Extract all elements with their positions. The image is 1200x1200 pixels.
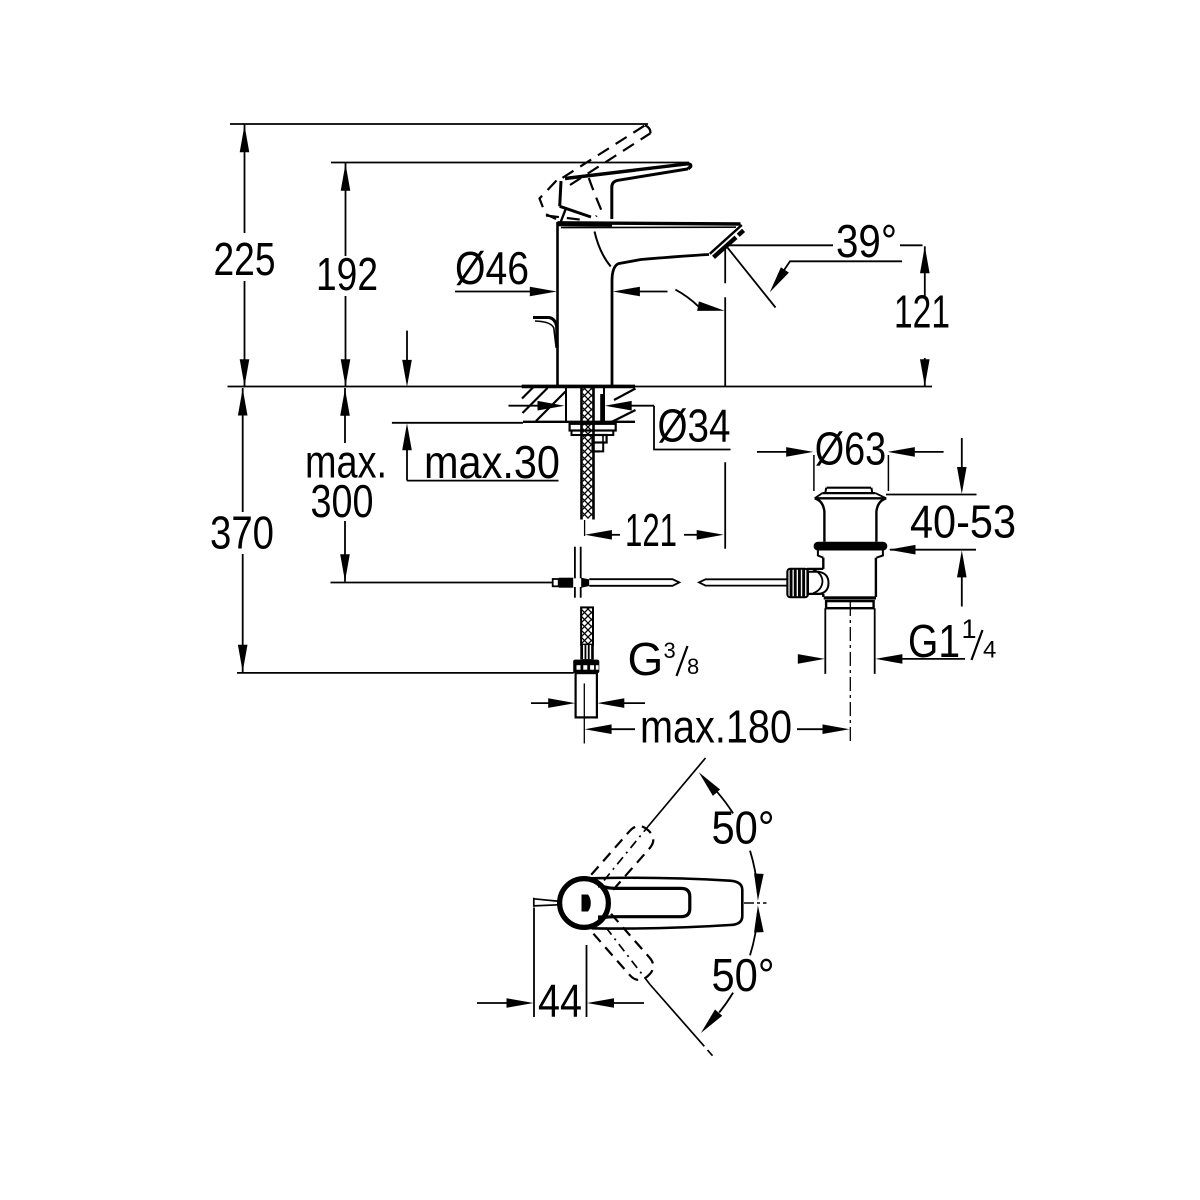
clamp block — [559, 578, 574, 588]
arc centerline — [744, 902, 767, 904]
curved arrow to spout angle — [675, 290, 698, 307]
hole edges — [565, 388, 567, 421]
svg-text:8: 8 — [687, 654, 699, 679]
inner grip outline — [602, 886, 690, 917]
hose centerline — [583, 683, 585, 743]
faucet centerline below shank — [584, 520, 586, 536]
flange bell — [815, 497, 887, 499]
svg-text:4: 4 — [983, 637, 996, 664]
joint thick band — [558, 223, 613, 227]
countertop surface line — [228, 386, 933, 388]
dim max.30 arrows — [406, 331, 408, 361]
threaded shank hatch — [583, 388, 593, 519]
dashed handle (up 50) — [591, 821, 658, 892]
svg-text:Ø63: Ø63 — [815, 423, 887, 475]
lever blade top — [565, 164, 691, 179]
pull pin — [534, 898, 561, 907]
hose in hole — [600, 394, 603, 421]
dim 192 extension line — [331, 162, 689, 164]
countertop bottom line — [523, 421, 635, 423]
39deg diagonal reference line — [727, 247, 776, 308]
body bottom thick band — [824, 596, 876, 599]
spout face — [710, 225, 742, 254]
dim 192 line — [345, 163, 347, 256]
dim 121 (right, vertical) — [924, 246, 926, 297]
knurled adjuster — [787, 569, 808, 598]
svg-text:50°: 50° — [712, 949, 775, 1001]
dim max.300 line — [344, 388, 346, 443]
svg-text:39°: 39° — [836, 215, 897, 267]
pivot front short line — [561, 210, 566, 223]
handle top-view outline — [592, 878, 743, 929]
shoulder under seal — [818, 551, 823, 558]
side port — [807, 568, 823, 570]
pivot circle — [560, 879, 609, 928]
max.30 label underline — [407, 480, 559, 482]
dashed pivot polygon — [540, 181, 557, 220]
svg-text:370: 370 — [210, 507, 274, 559]
dashed handle (down 50) — [591, 914, 658, 985]
svg-text:max.180: max.180 — [640, 701, 792, 753]
fitting step 2 — [593, 443, 604, 452]
hatching left block — [522, 388, 533, 399]
pull rod knob (hook) — [533, 318, 557, 349]
svg-text:121: 121 — [625, 504, 677, 556]
dim 370 line — [242, 388, 244, 512]
dashed raised lever blade — [540, 125, 651, 220]
tailpipe walls — [824, 608, 826, 674]
svg-text:3: 3 — [664, 638, 676, 663]
svg-text:300: 300 — [311, 475, 374, 527]
dim 225 line — [244, 125, 246, 234]
hatching right block — [614, 389, 636, 401]
pivot bottom diagonal — [560, 206, 591, 217]
mounting nut flange — [570, 424, 616, 431]
crimp collar — [580, 645, 594, 660]
inner junction curve — [595, 232, 611, 267]
braided hose — [581, 607, 593, 644]
dim G1 1/4 — [797, 658, 800, 660]
hose nut — [573, 660, 599, 674]
spout top edge — [558, 223, 741, 224]
lever blade underside + neck — [612, 169, 688, 219]
svg-text:1: 1 — [962, 614, 977, 644]
tailpiece flange — [826, 601, 874, 608]
svg-text:192: 192 — [316, 248, 378, 300]
radial line up — [648, 758, 706, 827]
dim 121 (lower, horizontal) — [585, 530, 612, 540]
dim 44 — [533, 908, 535, 1018]
svg-text:40-53: 40-53 — [910, 496, 1016, 548]
svg-text:G: G — [628, 633, 664, 685]
svg-text:121: 121 — [894, 286, 950, 338]
valve body walls — [822, 558, 824, 569]
O63 extension lines — [813, 455, 815, 491]
39deg leader with arrow — [774, 261, 902, 285]
horizontal rod right segment — [699, 579, 788, 585]
dim 370 bottom reference line — [237, 672, 574, 674]
G3/8 nipple — [576, 673, 597, 717]
spout inner top line — [561, 226, 736, 228]
faucet base thick band — [522, 385, 635, 389]
svg-text:Ø34: Ø34 — [658, 400, 731, 452]
fitting step 1 — [593, 435, 607, 443]
dim max.180 — [585, 724, 612, 734]
rotation arc lower — [750, 913, 758, 955]
rubber seal — [814, 542, 888, 551]
svg-text:Ø46: Ø46 — [455, 242, 529, 294]
lever pivot left edge — [560, 181, 561, 206]
svg-text:max.30: max.30 — [424, 436, 560, 488]
countertop underside extension line — [392, 422, 523, 424]
horizontal rod left segment — [589, 579, 679, 586]
svg-text:G1: G1 — [908, 615, 960, 667]
cartridge D mark — [582, 895, 591, 912]
dim 225 extension line (top) — [230, 123, 648, 125]
pop-up cap — [827, 487, 871, 489]
threaded shank walls — [580, 388, 583, 520]
svg-text:50°: 50° — [712, 802, 775, 854]
svg-text:44: 44 — [538, 975, 582, 1027]
aerator strip — [714, 237, 737, 257]
rotation arc upper — [717, 792, 733, 814]
dashed neck curve across solid pivot — [589, 178, 602, 217]
dim O34 — [509, 405, 541, 407]
body left edge — [556, 222, 559, 386]
link piece — [808, 572, 829, 594]
dim G 3/8 — [531, 702, 549, 704]
vertical rod — [574, 547, 576, 598]
radial line down — [650, 985, 704, 1047]
spout tip vertical reference line — [724, 248, 726, 283]
body right edge + spout underside — [612, 255, 709, 387]
max.300 reference line at rod level — [331, 582, 553, 584]
svg-text:225: 225 — [214, 233, 276, 285]
rod end cap — [553, 579, 559, 586]
drain centerline — [849, 602, 851, 743]
